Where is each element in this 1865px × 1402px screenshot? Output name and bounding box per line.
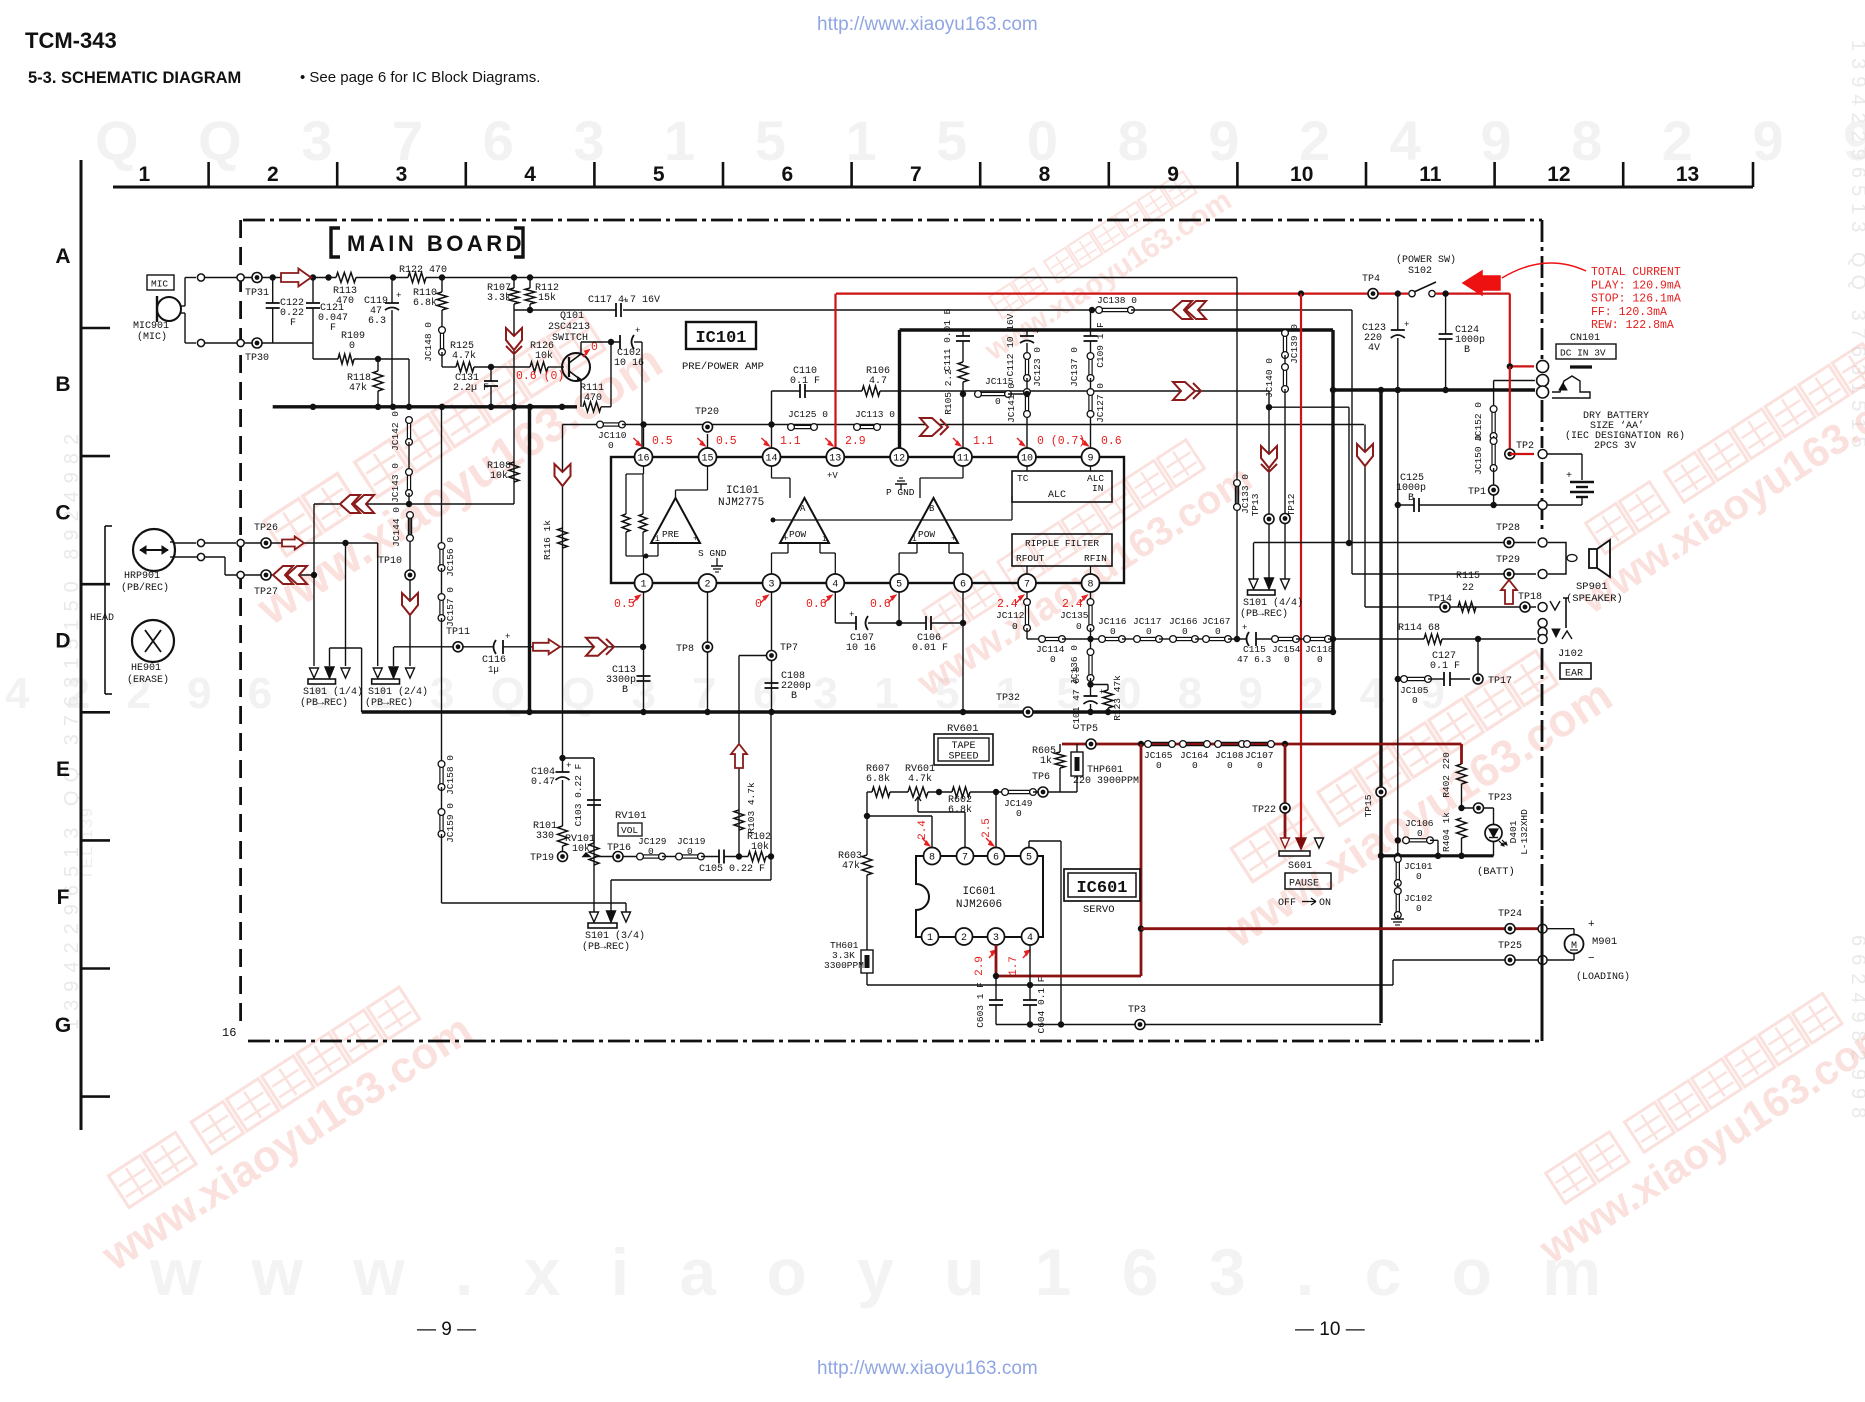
IC101 internal wire bbox=[675, 490, 677, 498]
svg-text:0.01 F: 0.01 F bbox=[912, 643, 948, 654]
svg-text:JC148 0: JC148 0 bbox=[423, 322, 434, 362]
signal arrow left double bbox=[340, 495, 360, 513]
connector bbox=[1538, 538, 1547, 547]
wire y424 seg2 bbox=[622, 424, 1364, 426]
wire pin7 down bbox=[1026, 592, 1028, 602]
svg-text:JC135: JC135 bbox=[1060, 610, 1089, 621]
voltage 2.5 IC601 pin6 bbox=[981, 818, 994, 846]
svg-text:RFIN: RFIN bbox=[1084, 553, 1107, 564]
wire y639 b bbox=[1062, 638, 1102, 640]
svg-text:2SC4213: 2SC4213 bbox=[548, 322, 590, 333]
svg-text:S GND: S GND bbox=[698, 548, 727, 559]
capacitor C124 bbox=[1439, 334, 1453, 339]
jumper JC114 bbox=[1039, 636, 1066, 643]
svg-text:3: 3 bbox=[993, 933, 999, 944]
svg-text:JC158 0: JC158 0 bbox=[445, 755, 456, 795]
connector bbox=[197, 553, 204, 560]
junction bbox=[390, 404, 396, 410]
jumper JC117 label bbox=[1133, 616, 1162, 637]
svg-text:(POWER SW): (POWER SW) bbox=[1396, 254, 1456, 266]
svg-text:0: 0 bbox=[1012, 621, 1018, 632]
svg-text:JC125 0: JC125 0 bbox=[788, 409, 828, 420]
svg-text:POW: POW bbox=[918, 529, 935, 540]
test point TP17 bbox=[1473, 674, 1483, 684]
wire C125 row a bbox=[1398, 504, 1414, 506]
jumper JC119 bbox=[676, 853, 705, 860]
connector CN101 pin bbox=[1537, 386, 1549, 398]
junction bbox=[1395, 837, 1401, 843]
test point TP10 bbox=[405, 570, 415, 580]
svg-text:0.6 (0): 0.6 (0) bbox=[516, 370, 564, 383]
IC101 internal wire bbox=[834, 553, 836, 574]
svg-text:(PB→REC): (PB→REC) bbox=[365, 697, 413, 709]
junction bbox=[771, 518, 776, 523]
connector CN101 pin bbox=[1537, 360, 1549, 372]
test point TP14 bbox=[1440, 602, 1450, 612]
wire C122 bottom bbox=[272, 308, 274, 343]
svg-text:C: C bbox=[55, 501, 70, 524]
wire R107 top bbox=[513, 278, 515, 289]
wire motor minus v bbox=[1573, 953, 1575, 960]
jumper JC123 bbox=[1024, 353, 1031, 382]
jumper JC150 bbox=[1490, 438, 1497, 472]
wire x594 c103c bbox=[593, 805, 595, 843]
svg-text:7: 7 bbox=[910, 163, 922, 186]
svg-text:THP601: THP601 bbox=[1087, 765, 1123, 776]
wire mic to top bbox=[181, 305, 185, 307]
svg-text:TP23: TP23 bbox=[1488, 793, 1512, 804]
wire TP28 row bbox=[1254, 542, 1537, 544]
wire mic top bbox=[185, 277, 196, 279]
svg-text:4.7k: 4.7k bbox=[908, 773, 932, 785]
wire x739 bbox=[738, 656, 740, 857]
jumper JC149 label bbox=[1004, 798, 1033, 819]
svg-text:14: 14 bbox=[765, 454, 777, 465]
thermistor THP601 bbox=[1071, 752, 1083, 776]
test point TP16 bbox=[613, 852, 623, 862]
svg-text:0: 0 bbox=[1192, 760, 1198, 771]
svg-text:F: F bbox=[57, 886, 70, 909]
IC601 pin 1 bbox=[922, 928, 939, 945]
connector J102 pin bbox=[1538, 628, 1547, 637]
svg-text:0: 0 bbox=[687, 846, 693, 857]
wire y639 i bbox=[1328, 638, 1333, 640]
connector bbox=[197, 539, 204, 546]
svg-text:C117 4.7 16V: C117 4.7 16V bbox=[588, 295, 660, 306]
svg-text:SERVO: SERVO bbox=[1083, 904, 1115, 916]
capacitor C113 label bbox=[606, 665, 636, 696]
battery note bbox=[1565, 411, 1685, 452]
capacitor C104 label bbox=[531, 767, 555, 788]
wire Q101 collector bbox=[580, 342, 582, 354]
IC601 name label box bbox=[1064, 869, 1140, 901]
svg-text:16: 16 bbox=[222, 1026, 236, 1040]
jumper JC152 bbox=[1490, 406, 1497, 440]
HEAD bracket bbox=[105, 526, 112, 694]
wire C119 bottom bbox=[391, 310, 393, 407]
svg-text:330: 330 bbox=[536, 831, 554, 842]
svg-text:4: 4 bbox=[1027, 933, 1033, 944]
IC101 internal wire bbox=[626, 473, 644, 475]
svg-text:2.9: 2.9 bbox=[845, 435, 866, 448]
svg-text:w w w . x i a o y u 1 6 3 .: w w w . x i a o y u 1 6 3 . c o m bbox=[149, 1235, 1617, 1309]
erase head HE901 bbox=[132, 620, 174, 662]
IC601 part labels bbox=[956, 886, 1002, 911]
main board boundary right bbox=[1541, 220, 1544, 904]
wire y504 bbox=[314, 503, 514, 505]
wire JC139 top bbox=[1284, 330, 1286, 333]
wire jack mid2 bbox=[1494, 380, 1533, 382]
junction bbox=[439, 274, 445, 280]
svg-text:(PB→REC): (PB→REC) bbox=[582, 941, 630, 953]
wire head lower bbox=[174, 556, 201, 558]
jumper JC113 bbox=[854, 424, 881, 431]
wire jack mid bbox=[1533, 380, 1535, 382]
red wire TP2 vert bbox=[1509, 366, 1511, 454]
svg-text:1: 1 bbox=[927, 933, 933, 944]
jumper JC110 label bbox=[598, 430, 627, 451]
wire ground bus y712 thick bbox=[362, 710, 1333, 713]
junction bbox=[640, 709, 646, 715]
signal arrow right bbox=[281, 269, 311, 287]
wire jc115 ext bbox=[1008, 393, 1027, 395]
voltage 0.5 pin15 bbox=[698, 435, 737, 448]
IC101 internal wire bbox=[1026, 466, 1028, 471]
switch S101 (1/4) label bbox=[300, 686, 363, 709]
junction bbox=[1027, 1021, 1033, 1027]
svg-text:TP6: TP6 bbox=[1032, 772, 1050, 783]
wire pin6 feed bbox=[995, 792, 997, 848]
capacitor C119 bbox=[385, 291, 401, 310]
wire R114 row b bbox=[1442, 638, 1536, 640]
op-amp POW B triangle bbox=[909, 498, 958, 544]
svg-text:TP2: TP2 bbox=[1516, 441, 1534, 452]
jumper JC139 bbox=[1282, 330, 1289, 359]
svg-text:JC144 0: JC144 0 bbox=[391, 507, 402, 547]
wire mic low bbox=[181, 312, 185, 314]
svg-text:— 10 —: — 10 — bbox=[1295, 1319, 1365, 1340]
jumper JC101 bbox=[1394, 856, 1401, 887]
resistor R108 label bbox=[487, 461, 511, 482]
IC101 pin 14 bbox=[763, 448, 781, 466]
wire TP23 row bbox=[1462, 807, 1494, 809]
red wire pin3 bbox=[995, 945, 998, 976]
wire y647 seg1 bbox=[394, 646, 493, 648]
jumper JC140 bbox=[1282, 364, 1289, 393]
junction bbox=[960, 709, 966, 715]
svg-text:JC157 0: JC157 0 bbox=[445, 587, 456, 627]
red wire pin13 vertical bbox=[834, 294, 836, 449]
junction bbox=[1138, 741, 1144, 747]
voltage 1.1 pin11 bbox=[953, 435, 994, 448]
CN101 lever bbox=[1552, 376, 1590, 398]
svg-text:HRP901: HRP901 bbox=[124, 571, 160, 582]
capacitor C113 bbox=[637, 676, 651, 681]
svg-text:R105 2.2: R105 2.2 bbox=[943, 369, 954, 415]
junction bbox=[488, 404, 494, 410]
svg-text:TP15: TP15 bbox=[1363, 794, 1374, 817]
svg-text:C111 0.01 B: C111 0.01 B bbox=[942, 308, 953, 371]
wire head step v bbox=[224, 557, 226, 575]
switch S101 (2/4) label bbox=[365, 686, 428, 709]
voltage 0 at Q101 collector bbox=[583, 341, 598, 357]
junction bbox=[375, 356, 381, 362]
connector bbox=[1538, 924, 1547, 933]
svg-text:C603 1 F: C603 1 F bbox=[975, 982, 986, 1028]
IC101 internal wire bbox=[625, 532, 627, 556]
svg-text:5: 5 bbox=[896, 580, 902, 591]
wire R107 col down bbox=[513, 310, 515, 504]
wire mic top bus y278 seg1 bbox=[201, 277, 336, 279]
wire motor minus bbox=[1547, 959, 1574, 961]
wire C125 junction bbox=[1494, 504, 1538, 506]
wire C124 up bbox=[1445, 294, 1447, 334]
jumper JC129 label bbox=[638, 836, 667, 857]
svg-text:47k: 47k bbox=[842, 860, 860, 872]
svg-text:2PCS 3V: 2PCS 3V bbox=[1594, 441, 1636, 452]
jumper JC144 bbox=[407, 512, 414, 542]
svg-text:0.6: 0.6 bbox=[806, 598, 827, 611]
wire C121 top bbox=[312, 278, 314, 304]
grid row ruler bbox=[55, 160, 110, 1130]
wire C101 down bbox=[1090, 704, 1092, 712]
jumper JC105 label bbox=[1400, 685, 1429, 706]
wire C102 row bbox=[581, 341, 620, 343]
wire C109 top bbox=[1090, 310, 1092, 336]
IC101 internal wire bbox=[772, 477, 791, 479]
wire pin15 up bbox=[707, 434, 709, 448]
op-amp POW A triangle bbox=[780, 498, 829, 544]
svg-text:http://www.xiaoyu163.com: http://www.xiaoyu163.com bbox=[817, 14, 1038, 35]
IC101 internal wire bbox=[772, 552, 789, 554]
svg-text:+: + bbox=[783, 534, 788, 544]
svg-text:TP27: TP27 bbox=[254, 587, 278, 598]
wire pin8 corner bbox=[1090, 628, 1092, 639]
voltage 0.5 pin1 bbox=[614, 595, 641, 611]
svg-text:MAIN BOARD: MAIN BOARD bbox=[347, 231, 525, 256]
ground symbol bbox=[1391, 915, 1404, 925]
resistor R602 label bbox=[948, 795, 972, 816]
svg-text:2: 2 bbox=[961, 933, 967, 944]
thermistor TH601 label bbox=[824, 940, 864, 971]
CN101 DC IN 3V box bbox=[1556, 344, 1616, 359]
voltage 0 pin3 bbox=[755, 595, 769, 611]
junction bbox=[1378, 853, 1384, 859]
svg-text:ON: ON bbox=[1319, 898, 1331, 909]
svg-text:0: 0 bbox=[1412, 695, 1418, 706]
jumper JC166 bbox=[1170, 636, 1199, 643]
junction bbox=[1435, 853, 1441, 859]
junction bbox=[1058, 1021, 1064, 1027]
jumper JC164 label bbox=[1180, 750, 1209, 771]
jumper JC137 bbox=[1087, 353, 1094, 382]
jumper JC156 bbox=[438, 543, 445, 572]
IC101 internal wire bbox=[1026, 566, 1028, 574]
red wire TP2 row bbox=[1510, 453, 1534, 455]
svg-text:TP4: TP4 bbox=[1362, 274, 1380, 285]
connector CN101 pin bbox=[1537, 375, 1549, 387]
svg-text:8: 8 bbox=[1087, 580, 1093, 591]
wire jc101-102 bbox=[1397, 883, 1399, 891]
capacitor C121 label bbox=[318, 303, 348, 334]
svg-text:0: 0 bbox=[1156, 760, 1162, 771]
jumper JC107 label bbox=[1245, 750, 1274, 771]
svg-text:2: 2 bbox=[704, 580, 710, 591]
jumper JC107 bbox=[1244, 741, 1275, 748]
IC101 internal wire bbox=[820, 552, 835, 554]
wire R126 to base bbox=[548, 366, 564, 368]
svg-text:HEAD: HEAD bbox=[90, 613, 114, 624]
svg-text:J102: J102 bbox=[1558, 648, 1583, 660]
svg-text:JC159 0: JC159 0 bbox=[445, 803, 456, 843]
IC101 internal wire bbox=[626, 555, 658, 557]
jumper JC148 bbox=[439, 327, 446, 356]
wire y391 seg2 bbox=[805, 390, 862, 392]
svg-text:3.3k: 3.3k bbox=[487, 292, 511, 304]
motor M901 bbox=[1565, 935, 1584, 954]
junction bbox=[768, 709, 774, 715]
LED D401 label bbox=[1508, 809, 1530, 855]
svg-text:12: 12 bbox=[893, 454, 905, 465]
capacitor C122 label bbox=[280, 298, 304, 329]
junction bbox=[640, 421, 646, 427]
signal arrow up bbox=[731, 744, 747, 768]
junction bbox=[1330, 636, 1336, 642]
wire R110-JC148 bbox=[441, 310, 443, 327]
wire motor plus v bbox=[1573, 929, 1575, 935]
resistor R102 label bbox=[747, 832, 771, 853]
capacitor C116 bbox=[494, 632, 511, 654]
wire pin7 corner bbox=[1026, 628, 1028, 639]
svg-text:6: 6 bbox=[781, 163, 793, 186]
transistor Q101 label bbox=[548, 311, 590, 344]
thermistor TH601 bbox=[861, 950, 873, 973]
test point TP13 bbox=[1264, 514, 1274, 524]
svg-text:DC IN 3V: DC IN 3V bbox=[1560, 348, 1606, 359]
svg-text:6: 6 bbox=[993, 853, 999, 864]
resistor R603 label bbox=[838, 851, 862, 872]
wire LED down bbox=[1493, 841, 1495, 856]
svg-text:Q101: Q101 bbox=[560, 311, 584, 322]
test point TP20 bbox=[703, 422, 713, 432]
wire R404 down bbox=[1461, 838, 1463, 856]
svg-text:1: 1 bbox=[138, 163, 150, 186]
capacitor C125 label bbox=[1396, 473, 1426, 504]
jumper JC154 label bbox=[1272, 644, 1301, 665]
wire y639 h bbox=[1296, 638, 1307, 640]
IC101 internal wire bbox=[657, 543, 659, 556]
wire pin3 down bbox=[771, 592, 773, 712]
junction bbox=[993, 789, 999, 795]
junction bbox=[1395, 290, 1401, 296]
junction bbox=[1458, 853, 1464, 859]
svg-text:+: + bbox=[693, 534, 698, 544]
svg-text:13: 13 bbox=[1676, 163, 1699, 186]
test point TP23 bbox=[1474, 803, 1484, 813]
switch S101 (1/4) bbox=[308, 667, 350, 684]
wire y639 d bbox=[1159, 638, 1173, 640]
wire R605 top bbox=[1059, 744, 1061, 752]
voltage 2.4 IC601 pin8 bbox=[917, 820, 930, 846]
S GND symbol bbox=[698, 548, 727, 572]
svg-text:0: 0 bbox=[1076, 621, 1082, 632]
test point TP26 bbox=[261, 538, 271, 548]
capacitor C101 bbox=[1084, 687, 1105, 704]
connector bbox=[237, 274, 244, 281]
svg-text:0.5: 0.5 bbox=[716, 435, 737, 448]
wire x1397 down bbox=[1397, 390, 1399, 679]
svg-text:15: 15 bbox=[701, 454, 713, 465]
svg-text:TP31: TP31 bbox=[245, 288, 269, 299]
svg-text:0.5: 0.5 bbox=[652, 435, 673, 448]
svg-text:JC141 0: JC141 0 bbox=[1006, 383, 1017, 423]
potentiometer RV101 label bbox=[565, 834, 595, 855]
resistor R112 label bbox=[535, 283, 559, 304]
junction bbox=[1395, 502, 1401, 508]
svg-text:(PB/REC): (PB/REC) bbox=[121, 582, 169, 594]
wire Q101 emitter bbox=[580, 380, 582, 391]
resistor R102 bbox=[748, 852, 766, 862]
svg-text:D: D bbox=[55, 630, 70, 653]
svg-text:0: 0 bbox=[1182, 626, 1188, 637]
svg-text:+: + bbox=[951, 534, 956, 544]
svg-text:C103 0.22 F: C103 0.22 F bbox=[573, 763, 584, 826]
IC101 internal wire bbox=[643, 556, 645, 574]
wire thick x1542 bottom bbox=[1541, 906, 1544, 1041]
svg-text:MIC: MIC bbox=[151, 279, 168, 290]
wire x361 down bbox=[361, 648, 363, 712]
junction bbox=[406, 501, 412, 507]
junction bbox=[325, 274, 331, 280]
transistor Q101 bbox=[562, 353, 590, 381]
svg-text:5: 5 bbox=[653, 163, 665, 186]
svg-text:8: 8 bbox=[1039, 163, 1051, 186]
svg-text:3: 3 bbox=[396, 163, 408, 186]
IC101 pin 15 bbox=[699, 448, 717, 466]
svg-text:+: + bbox=[849, 610, 854, 620]
svg-text:0: 0 bbox=[1317, 654, 1323, 665]
svg-text:0: 0 bbox=[1215, 626, 1221, 637]
svg-text:R123 47k: R123 47k bbox=[1112, 675, 1123, 721]
wire pin16 up bbox=[643, 425, 645, 449]
svg-text:4: 4 bbox=[832, 580, 838, 591]
jumper JC115 bbox=[975, 391, 1012, 398]
connector bbox=[237, 539, 244, 546]
signal arrow down bbox=[402, 593, 418, 615]
wire y856 seg2 bbox=[662, 856, 679, 858]
svg-text:TCM-343: TCM-343 bbox=[25, 28, 117, 53]
junction bbox=[1105, 709, 1111, 715]
IC601 pin 8 bbox=[924, 848, 941, 865]
wire JC139-JC140 bbox=[1284, 355, 1286, 367]
jumper JC106 bbox=[1403, 837, 1434, 844]
test point TP15 bbox=[1376, 787, 1386, 797]
svg-text:12: 12 bbox=[1547, 163, 1570, 186]
CN101 lever triangle bbox=[1559, 383, 1567, 390]
IC101 internal wire bbox=[676, 489, 708, 491]
svg-text:(SPEAKER): (SPEAKER) bbox=[1566, 593, 1623, 605]
switch S101 (4/4) bbox=[1248, 578, 1290, 595]
svg-text:PAUSE: PAUSE bbox=[1289, 879, 1319, 890]
junction bbox=[960, 620, 966, 626]
resistor R125 label bbox=[450, 341, 476, 362]
wire x562 b bbox=[562, 758, 564, 772]
signal arrow down bbox=[1357, 444, 1373, 466]
resistor R112 bbox=[525, 288, 535, 304]
svg-text:47 6.3: 47 6.3 bbox=[1237, 654, 1272, 665]
wire pin2 down bbox=[707, 592, 709, 712]
svg-text:0: 0 bbox=[1146, 626, 1152, 637]
